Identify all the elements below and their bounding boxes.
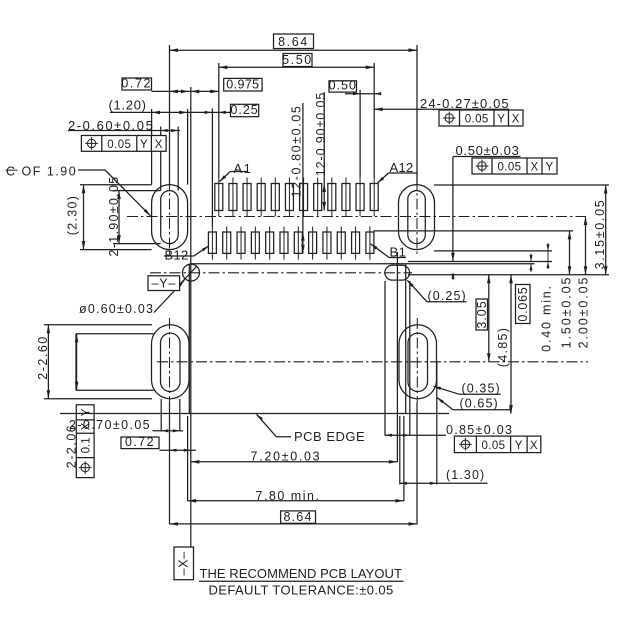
node: lower-left shell slot inner (0.70 slot) xyxy=(161,333,181,392)
wire: 2-2.06 dimension line xyxy=(76,334,78,390)
wire: (1.30) extensions xyxy=(399,416,401,485)
wire: 2-0.70 dimension line xyxy=(153,430,184,432)
wire: (1.30) dimension line + underline xyxy=(400,482,488,484)
svg-text:(4.85): (4.85) xyxy=(496,327,510,367)
node: oval locating slot 0.85x0.60 xyxy=(385,265,410,280)
wire: (2.30) dimension line xyxy=(83,185,85,250)
wire: 8.64 bottom dimension line xyxy=(170,523,418,525)
svg-text:Y: Y xyxy=(545,162,553,174)
node: basic dim 0.25 xyxy=(231,104,259,116)
svg-text:0.40 min.: 0.40 min. xyxy=(540,284,554,352)
wire: -Y- datum leader xyxy=(180,266,197,285)
svg-text:PCB EDGE: PCB EDGE xyxy=(294,429,365,444)
svg-text:1.50±0.05: 1.50±0.05 xyxy=(560,276,574,349)
svg-text:8.64: 8.64 xyxy=(283,510,312,524)
wire: (1.20) right extension xyxy=(187,109,189,185)
svg-text:(1.20): (1.20) xyxy=(109,98,147,113)
wire: vertical centerline upper-left slot xyxy=(169,179,171,257)
wire: 1.50 dimension line xyxy=(569,231,571,275)
wire: 3.15 top extension from upper-right slot xyxy=(434,184,609,186)
svg-text:8.64: 8.64 xyxy=(278,35,309,49)
wire: (4.85) dimension line xyxy=(510,275,512,414)
svg-text:0.85±0.03: 0.85±0.03 xyxy=(446,423,513,437)
svg-text:X: X xyxy=(512,114,520,126)
wire: centreline-of-1.90 leader xyxy=(78,169,105,171)
node: pad B6 xyxy=(297,227,299,260)
svg-text:C OF 1.90: C OF 1.90 xyxy=(6,164,77,178)
svg-text:A12: A12 xyxy=(390,160,414,175)
wire: 2-1.90 dimension line xyxy=(118,191,120,244)
node: FCF for 24-0.27 pads xyxy=(439,110,523,126)
wire: B12 extension (0.25) xyxy=(211,109,213,227)
node: basic dim 0.065 (rotated) xyxy=(516,285,531,324)
svg-text:(2.30): (2.30) xyxy=(66,195,80,235)
wire: (2.30) extensions xyxy=(80,184,152,186)
node: left shield pad rectangle xyxy=(76,333,154,335)
wire: 0.80 pad-length dimension line xyxy=(302,103,304,253)
node: pad B5 xyxy=(312,227,314,260)
node: pad B3 xyxy=(340,227,342,260)
node: pad A5 xyxy=(274,178,276,217)
wire: 0.72 bottom dimension line xyxy=(160,449,197,451)
svg-text:0.72: 0.72 xyxy=(121,77,152,91)
wire: datum X vertical line (hole centre) down to -X- flag xyxy=(190,87,192,547)
svg-text:0.25: 0.25 xyxy=(230,103,258,117)
svg-text:0.05: 0.05 xyxy=(465,114,489,126)
svg-text:3.05: 3.05 xyxy=(475,300,489,328)
node: pad A2 xyxy=(232,178,234,217)
node: upper-right shell slot inner xyxy=(408,191,426,244)
svg-text:0.05: 0.05 xyxy=(107,139,131,151)
node: pad A4 xyxy=(260,178,262,217)
svg-text:0.05: 0.05 xyxy=(482,440,506,452)
wire: vertical centerline upper-right slot xyxy=(416,179,418,257)
wire: (0.35) leader xyxy=(460,393,501,395)
svg-text:B12: B12 xyxy=(165,248,189,263)
wire: 5.50 dimension line xyxy=(219,66,374,68)
wire: horizontal centerline through lower shell slots xyxy=(157,361,588,363)
node: lower-left shell slot outer xyxy=(152,325,190,399)
svg-text:0.975: 0.975 xyxy=(226,78,259,92)
wire: 7.80 min dimension line xyxy=(188,500,404,502)
wire: 3.05 dimension line xyxy=(488,275,490,362)
node: basic dim 5.50 xyxy=(283,54,312,67)
node: pad A6 xyxy=(288,178,290,217)
svg-text:0.50: 0.50 xyxy=(329,79,357,93)
svg-text:ø0.60±0.03: ø0.60±0.03 xyxy=(79,302,154,316)
svg-text:7.80 min.: 7.80 min. xyxy=(256,489,321,503)
node: pad A1 xyxy=(218,178,220,217)
wire: 7.80 min extensions xyxy=(187,416,189,501)
wire: 1.50 extension from B1 pad top xyxy=(373,230,573,232)
node: pad A11 xyxy=(359,178,361,217)
node: upper-left shell slot outer xyxy=(152,185,188,250)
svg-text:Y: Y xyxy=(140,139,148,151)
wire: 0.50±0.03 leader vertical xyxy=(452,157,454,262)
node: pad A12 xyxy=(373,178,375,217)
wire: A12 extension (5.50 / 24-0.27 leader) xyxy=(373,63,375,178)
wire: ø0.60 leader xyxy=(154,280,184,312)
node: pad B8 xyxy=(269,227,271,260)
node: FCF for 2-0.60 slots xyxy=(81,136,166,152)
node: basic dim 0.975 xyxy=(224,78,262,91)
node: FCF for 2-2.06 (rotated) xyxy=(76,405,94,478)
svg-text:24-0.27±0.05: 24-0.27±0.05 xyxy=(420,96,510,111)
node: connector body outline top edge (extended right for 0.065 dim) xyxy=(190,263,535,265)
wire: B12 leader xyxy=(164,255,194,257)
wire: 0.40 min dimension xyxy=(547,243,549,269)
svg-text:12-0.80±0.05: 12-0.80±0.05 xyxy=(290,105,304,198)
node: pad A3 xyxy=(246,178,248,217)
wire: PCB edge line xyxy=(60,413,449,415)
svg-text:0.72: 0.72 xyxy=(125,435,155,449)
svg-text:3.15±0.05: 3.15±0.05 xyxy=(593,199,607,270)
wire: 12-0.90 pad-length dimension line xyxy=(323,92,325,211)
svg-text:–X–: –X– xyxy=(177,551,191,576)
node: pad B10 xyxy=(240,227,242,260)
wire: pad tail line (0.50 ref) xyxy=(408,261,552,263)
wire: body left edge xyxy=(188,264,190,414)
svg-text:Y: Y xyxy=(515,440,523,452)
svg-text:2.00±0.05: 2.00±0.05 xyxy=(577,276,591,349)
wire: small (0.25) dim at hole axis xyxy=(452,273,454,280)
wire: 3.15 dimension line xyxy=(605,185,607,275)
wire: (1.20) left extension xyxy=(151,109,153,185)
node: upper-left shell slot inner (0.60 slot) xyxy=(161,191,179,244)
wire: A11 extension (0.50 pitch) xyxy=(359,90,361,178)
node: pad B1 xyxy=(369,227,371,260)
node: pad B12 xyxy=(211,227,213,260)
wire: 0.50 pitch dimension line xyxy=(345,93,381,95)
node: basic dim 3.05 (rotated) xyxy=(476,299,488,330)
svg-text:X: X xyxy=(530,162,538,174)
wire: (0.65) leader xyxy=(453,409,511,411)
wire: 7.20 dimension line xyxy=(191,461,398,463)
wire: datum-Y axis extension right xyxy=(408,274,609,276)
svg-text:Y: Y xyxy=(81,408,93,416)
svg-text:X: X xyxy=(530,440,538,452)
node: upper-right shell slot outer xyxy=(399,185,435,250)
node: pad B2 xyxy=(355,227,357,260)
wire: vertical centerline lower-right slot xyxy=(416,318,418,402)
svg-text:0.50±0.03: 0.50±0.03 xyxy=(456,143,520,158)
node: basic dim 0.72 (top) xyxy=(122,78,152,90)
svg-text:2-1.90±0.05: 2-1.90±0.05 xyxy=(107,176,121,257)
wire: 0.70 slot width extensions (bottom) xyxy=(160,399,162,432)
node: pad A7 xyxy=(303,178,305,217)
svg-text:2-0.60±0.05: 2-0.60±0.05 xyxy=(68,118,154,133)
svg-text:0.065: 0.065 xyxy=(516,286,530,321)
svg-text:5.50: 5.50 xyxy=(282,53,313,67)
svg-text:Y: Y xyxy=(497,114,505,126)
wire: 2.00 dimension line xyxy=(585,217,587,275)
svg-text:THE RECOMMEND PCB LAYOUT: THE RECOMMEND PCB LAYOUT xyxy=(200,566,402,581)
wire: A1 extension (5.50 / 0.975) xyxy=(218,63,220,178)
svg-text:A1: A1 xyxy=(234,161,253,176)
node: round locating hole ø0.60 (datum) xyxy=(183,264,200,281)
wire: 8.64 top dimension line xyxy=(170,49,418,51)
wire: 7.20 right extension (oval hole centre) xyxy=(396,252,398,462)
svg-text:0.1: 0.1 xyxy=(81,437,93,453)
svg-text:7.20±0.03: 7.20±0.03 xyxy=(251,450,322,464)
wire: 8.64 top right extension xyxy=(416,45,418,185)
wire: 0.065 dimension (outside arrows) xyxy=(530,254,532,262)
wire: horizontal datum-Y axis through locating holes xyxy=(150,272,412,274)
wire: 2-0.60 dimension line xyxy=(68,130,180,132)
node: datum flag -X- xyxy=(174,547,194,580)
wire: 2-2.60 dimension line xyxy=(47,325,49,399)
svg-text:(0.65): (0.65) xyxy=(460,397,499,411)
svg-text:2-0.70±0.05: 2-0.70±0.05 xyxy=(69,418,151,432)
wire: A1 leader xyxy=(230,171,247,173)
svg-text:2-2.60: 2-2.60 xyxy=(36,335,50,379)
svg-text:DEFAULT TOLERANCE:±0.05: DEFAULT TOLERANCE:±0.05 xyxy=(209,583,394,598)
node: FCF for 0.85 slot xyxy=(454,436,540,453)
node: lower-right shell slot inner xyxy=(408,333,428,392)
node: pad B9 xyxy=(254,227,256,260)
node: pad B7 xyxy=(283,227,285,260)
svg-text:(0.35): (0.35) xyxy=(462,381,501,395)
wire: 0.50±0.03 label underline xyxy=(453,156,521,158)
node: basic dim 8.64 (bottom) xyxy=(281,511,316,523)
node: pad B11 xyxy=(226,227,228,260)
wire: horizontal centerline through upper shell slots and pad rows xyxy=(127,216,586,218)
svg-text:0.05: 0.05 xyxy=(498,162,522,174)
svg-text:–Y–: –Y– xyxy=(151,276,176,290)
node: FCF for 0.50±0.03 xyxy=(472,158,557,174)
svg-text:B1: B1 xyxy=(390,245,407,260)
wire: 0.85 slot-length dimension line xyxy=(385,434,446,436)
wire: B1 leader xyxy=(389,257,406,259)
wire: 2.60 extensions xyxy=(44,324,152,326)
wire: 8.64 bottom extensions xyxy=(169,402,171,525)
wire: PCB EDGE leader xyxy=(276,436,291,438)
wire: 0.72 / 0.975 dimension line xyxy=(152,90,219,92)
node: basic dim 0.72 (bottom) xyxy=(121,437,159,449)
node: pad A9 xyxy=(331,178,333,217)
node: pad A8 xyxy=(317,178,319,217)
node: basic dim 8.64 (top) xyxy=(274,34,314,49)
wire: (1.20) / 0.25 dimension line xyxy=(110,111,231,113)
svg-text:2-2.06: 2-2.06 xyxy=(65,424,79,468)
wire: body right edge xyxy=(405,264,407,414)
node: pad A10 xyxy=(345,178,347,217)
svg-text:(0.25): (0.25) xyxy=(428,289,467,303)
svg-text:12-0.90±0.05: 12-0.90±0.05 xyxy=(314,92,328,176)
wire: 1.90 extensions xyxy=(113,190,161,192)
wire: 8.64 top left extension xyxy=(169,45,171,185)
node: pad B4 xyxy=(326,227,328,260)
node: basic dim 0.50 xyxy=(329,81,357,92)
svg-text:(1.30): (1.30) xyxy=(446,468,485,482)
svg-text:X: X xyxy=(155,139,163,151)
wire: A12 leader xyxy=(389,172,418,174)
wire: 0.60 slot width extensions xyxy=(160,127,162,191)
node: lower-right shell slot outer xyxy=(399,325,437,399)
wire: 0.40min top extension from slot bottom xyxy=(434,250,552,252)
wire: 24-0.27 label leader line xyxy=(374,108,509,110)
wire: 0.85 slot extensions xyxy=(384,281,386,436)
wire: vertical centerline lower-left slot xyxy=(169,318,171,402)
wire: (0.25) oval-corner leader xyxy=(427,301,467,303)
node: datum flag -Y- xyxy=(148,276,180,291)
